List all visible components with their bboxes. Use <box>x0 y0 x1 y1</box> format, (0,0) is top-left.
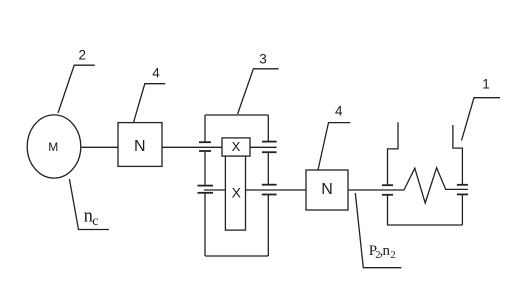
svg-text:n: n <box>383 243 391 259</box>
svg-text:N: N <box>321 181 333 198</box>
leader label nc <box>69 179 109 230</box>
svg-text:N: N <box>134 138 146 155</box>
svg-text:4: 4 <box>335 104 343 119</box>
leader label 2 <box>58 65 95 113</box>
gearbox housing bottom wall <box>205 255 268 257</box>
motor M1 (electric motor circle) <box>27 115 81 178</box>
svg-text:M: M <box>48 140 58 154</box>
svg-text:2: 2 <box>78 47 86 62</box>
machine left support post <box>388 122 399 185</box>
svg-text:X: X <box>232 139 241 154</box>
leader label 4 first <box>134 84 166 123</box>
bearing right support <box>457 185 468 195</box>
leader label 3 <box>238 69 279 114</box>
gear pinion box X1 on input shaft <box>222 138 250 156</box>
svg-text:1: 1 <box>482 77 490 92</box>
svg-text:4: 4 <box>152 66 160 81</box>
svg-text:X: X <box>232 185 242 201</box>
wire shaft coupling2 to machine <box>348 189 404 191</box>
bearing right wall output shaft <box>262 185 277 195</box>
leader label 1 <box>462 98 501 141</box>
coupling N1 box <box>118 123 162 167</box>
svg-text:2: 2 <box>390 250 395 261</box>
bearing right wall input shaft <box>262 142 277 153</box>
gear wheel tall box X2 on output shaft <box>225 156 245 230</box>
bearing left support <box>382 185 393 195</box>
machine right support post <box>453 125 463 185</box>
bearing left wall output shaft <box>198 186 214 193</box>
bearing left wall input shaft <box>199 142 211 151</box>
svg-text:c: c <box>92 214 98 229</box>
leader label P2n2 <box>355 193 401 268</box>
svg-text:3: 3 <box>259 51 267 66</box>
machine base line <box>387 224 462 226</box>
wire shaft motor to coupling <box>81 146 118 148</box>
gearbox housing left wall segments <box>204 115 206 142</box>
spring working element zigzag <box>404 168 468 203</box>
wire shaft gearbox output to coupling2 <box>204 189 306 191</box>
gearbox housing top wall <box>205 114 268 116</box>
leader label 4 second <box>318 123 350 170</box>
wire shaft coupling1 to gearbox input <box>162 146 277 148</box>
coupling N2 box <box>306 170 348 210</box>
gearbox housing right wall segments <box>267 115 269 142</box>
